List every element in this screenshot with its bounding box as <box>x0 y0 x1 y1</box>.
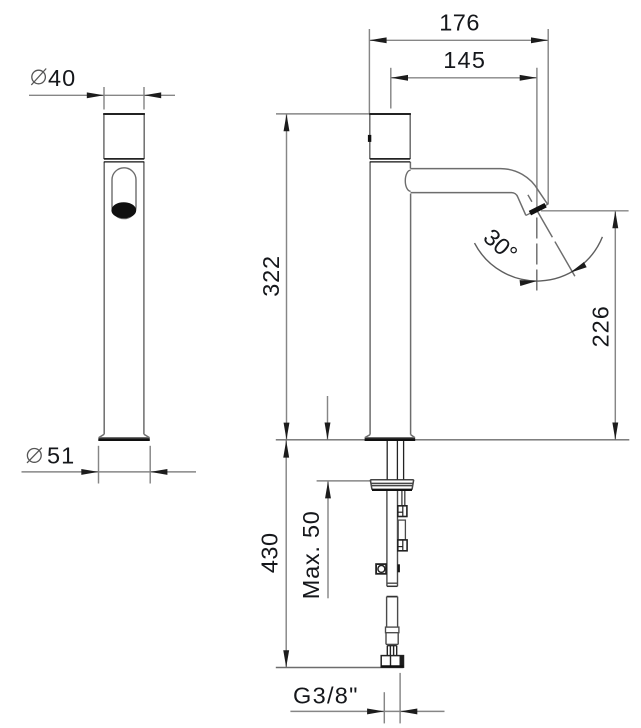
svg-text:322: 322 <box>258 255 284 297</box>
svg-text:G3/8": G3/8" <box>293 683 359 709</box>
svg-text:51: 51 <box>47 443 75 469</box>
svg-text:176: 176 <box>439 10 480 36</box>
svg-text:226: 226 <box>587 305 613 347</box>
svg-text:Max. 50: Max. 50 <box>298 510 324 599</box>
svg-text:40: 40 <box>48 65 76 91</box>
svg-text:145: 145 <box>443 47 486 73</box>
svg-text:430: 430 <box>257 532 283 573</box>
